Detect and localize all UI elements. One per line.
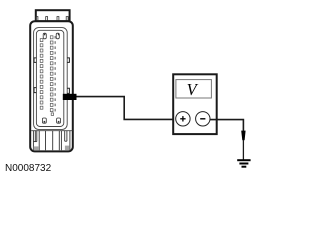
- lower section step left: [33, 141, 36, 143]
- top slot right: [56, 33, 59, 39]
- bottom slot right: [57, 118, 61, 123]
- voltmeter box: [173, 74, 217, 134]
- right wall bracket lower: [67, 88, 69, 93]
- connector body: [30, 21, 73, 151]
- wire from minus terminal to ground: [210, 120, 243, 131]
- extra right column pin: [51, 113, 53, 116]
- bottom slot left: [42, 118, 46, 123]
- right pin column: [50, 36, 53, 112]
- probe terminal (black): [63, 94, 77, 100]
- svg-text:N0008732: N0008732: [5, 163, 52, 174]
- lower section step right: [65, 140, 67, 142]
- ground bar 1: [237, 159, 250, 161]
- minus terminal: [196, 112, 210, 126]
- wire from probe to meter: [77, 97, 177, 120]
- connector lower section top line: [31, 130, 72, 132]
- connector top cap: [36, 10, 70, 21]
- ground lead: [242, 140, 244, 160]
- ground probe wedge: [241, 131, 245, 141]
- left wall bracket upper: [34, 58, 36, 63]
- lower section gray block right: [65, 146, 70, 151]
- connector inner shroud outer line: [34, 28, 68, 130]
- top slot left: [43, 33, 46, 39]
- right wall bracket upper: [67, 58, 69, 63]
- plus terminal: [176, 112, 190, 126]
- connector top cap tab 3: [57, 17, 59, 22]
- left wall bracket lower: [34, 88, 36, 93]
- connector top cap tab 1: [36, 17, 38, 22]
- lower section gray block left: [34, 146, 39, 150]
- right pin tick marks: [55, 36, 56, 111]
- lower section vertical lines: [33, 131, 70, 151]
- voltmeter display window: [176, 80, 212, 98]
- connector top cap tab 4: [66, 17, 68, 22]
- left pin column: [40, 39, 43, 110]
- ground bar 3: [242, 166, 247, 168]
- connector inner shroud inner line: [36, 30, 63, 126]
- connector top cap tab 2: [46, 17, 48, 22]
- ground bar 2: [239, 163, 248, 165]
